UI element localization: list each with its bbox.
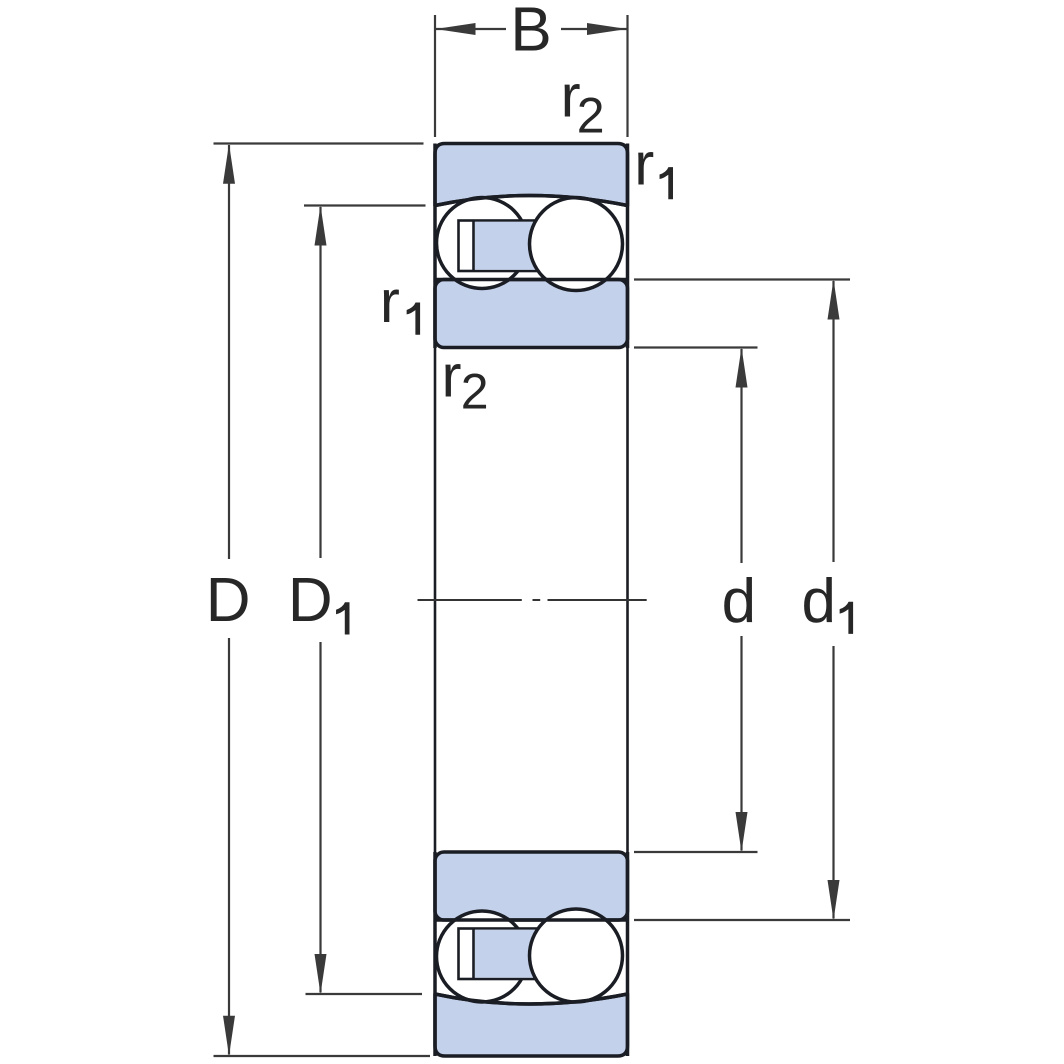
label r2 top bbox=[561, 63, 605, 144]
d1 arrow bottom bbox=[828, 880, 840, 920]
svg-text:B: B bbox=[510, 0, 551, 65]
label d1 bbox=[802, 567, 854, 636]
D1 dimension line bbox=[319, 207, 321, 993]
svg-text:r: r bbox=[442, 342, 462, 409]
bore wall left bbox=[434, 348, 437, 852]
svg-text:r: r bbox=[380, 268, 400, 335]
outer ring top cross-section bbox=[435, 144, 628, 206]
label r1 left bbox=[380, 268, 420, 335]
B arrow left bbox=[436, 23, 476, 35]
center line dash left bbox=[418, 599, 522, 601]
label r2 left bbox=[442, 342, 489, 419]
B extension line right bbox=[626, 15, 628, 137]
inner ring bottom cross-section bbox=[435, 852, 628, 920]
ball bottom-left bbox=[437, 911, 528, 1002]
inner shoulder line top bbox=[435, 278, 628, 282]
D extension line bottom bbox=[214, 1055, 431, 1057]
d extension line bottom bbox=[634, 851, 758, 853]
d extension line top bbox=[634, 346, 758, 348]
inner shoulder line bottom bbox=[435, 918, 628, 922]
D1 extension line bottom bbox=[306, 993, 423, 995]
B arrow right bbox=[587, 23, 627, 35]
svg-text:D: D bbox=[206, 566, 251, 635]
center line dot bbox=[533, 599, 541, 601]
right face line top bbox=[626, 144, 630, 349]
D1 extension line top bbox=[304, 204, 426, 206]
D arrow bottom bbox=[223, 1016, 235, 1056]
svg-text:2: 2 bbox=[577, 87, 605, 143]
D dimension line bbox=[228, 145, 230, 1055]
label D1 bbox=[288, 566, 350, 635]
d dimension line bbox=[740, 349, 742, 851]
cage bottom bbox=[459, 929, 546, 980]
svg-text:D: D bbox=[288, 566, 333, 635]
d1 dimension line bbox=[832, 281, 834, 919]
outer raceway line bottom bbox=[435, 994, 628, 1004]
d arrow bottom bbox=[736, 812, 748, 852]
cage top bbox=[459, 221, 546, 272]
outer raceway line top bbox=[435, 196, 628, 206]
d1 extension line top bbox=[634, 278, 850, 280]
ball bottom-right bbox=[530, 909, 623, 1002]
ball top-right bbox=[530, 198, 623, 291]
B dimension line bbox=[436, 28, 627, 30]
B extension line left bbox=[434, 15, 436, 137]
outer ring bottom cross-section bbox=[435, 994, 628, 1056]
d1 extension line bottom bbox=[634, 919, 850, 921]
inner ring top cross-section bbox=[435, 280, 628, 348]
svg-text:d: d bbox=[722, 567, 756, 636]
d1 arrow top bbox=[828, 280, 840, 320]
left face line bottom bbox=[433, 852, 437, 1056]
right face line bottom bbox=[626, 852, 630, 1056]
D extension line top bbox=[214, 142, 424, 144]
svg-text:r: r bbox=[634, 130, 654, 197]
label r1 right bbox=[634, 130, 673, 199]
D1 arrow top bbox=[315, 206, 327, 246]
left face line top bbox=[433, 144, 437, 349]
D1 arrow bottom bbox=[315, 954, 327, 994]
center line dash right bbox=[548, 599, 647, 601]
d arrow top bbox=[736, 348, 748, 388]
svg-text:2: 2 bbox=[461, 363, 489, 419]
svg-text:d: d bbox=[802, 567, 836, 636]
bore wall right bbox=[626, 348, 629, 852]
D arrow top bbox=[223, 144, 235, 184]
ball top-left bbox=[437, 198, 528, 289]
